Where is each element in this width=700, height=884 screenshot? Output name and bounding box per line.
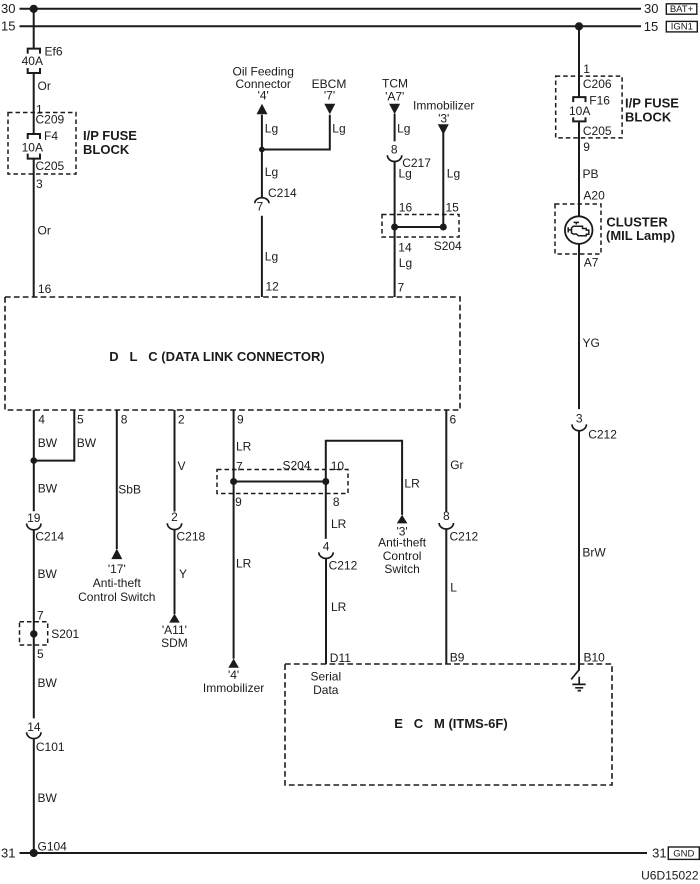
- svg-text:Y: Y: [179, 567, 187, 581]
- svg-text:9: 9: [237, 412, 244, 426]
- splice S204 (lower) internal wire: [234, 481, 326, 483]
- wire: DLC pin 9 to S204 pin 7 (LR): [233, 410, 235, 482]
- bus 30 (BAT+): [20, 8, 642, 10]
- svg-text:Anti-theft: Anti-theft: [93, 576, 142, 590]
- svg-text:14: 14: [27, 720, 41, 734]
- svg-text:2: 2: [178, 412, 185, 426]
- svg-text:16: 16: [38, 282, 52, 296]
- I/P fuse block (right) dashed box: [556, 76, 622, 138]
- svg-text:2: 2: [171, 510, 178, 524]
- node: S204 pin7 dot: [230, 478, 237, 485]
- svg-text:BW: BW: [38, 676, 58, 690]
- svg-text:Or: Or: [38, 79, 51, 93]
- wire: C214 to DLC pin 12 (Lg): [261, 216, 263, 297]
- svg-text:16: 16: [399, 201, 413, 215]
- connector C214 pin 19 (cup symbol): [27, 524, 41, 530]
- svg-text:'A11': 'A11': [162, 623, 187, 637]
- svg-text:LR: LR: [404, 477, 420, 491]
- arrow from Immobilizer '3': [438, 124, 449, 135]
- svg-text:V: V: [178, 459, 186, 473]
- svg-text:Lg: Lg: [265, 122, 278, 136]
- svg-text:8: 8: [391, 143, 398, 157]
- svg-text:9: 9: [583, 140, 590, 154]
- svg-text:6: 6: [450, 412, 457, 426]
- svg-text:C205: C205: [583, 124, 612, 138]
- node: junction bus30 / left column: [30, 5, 38, 13]
- svg-text:'4': '4': [228, 668, 239, 682]
- svg-text:(MIL Lamp): (MIL Lamp): [606, 228, 675, 243]
- svg-text:7: 7: [236, 459, 243, 473]
- svg-text:10: 10: [331, 459, 345, 473]
- svg-text:C101: C101: [36, 740, 65, 754]
- svg-text:LR: LR: [236, 557, 252, 571]
- svg-text:BW: BW: [38, 436, 58, 450]
- wire: DLC pin 5 down and across (BW): [34, 410, 75, 461]
- svg-text:B9: B9: [450, 651, 465, 665]
- svg-text:5: 5: [77, 412, 84, 426]
- connector C214 pin 7 (cap symbol): [255, 198, 269, 204]
- svg-text:L: L: [450, 581, 457, 595]
- svg-text:Ef6: Ef6: [45, 45, 63, 59]
- svg-text:BW: BW: [38, 791, 58, 805]
- svg-text:'4': '4': [258, 88, 269, 102]
- svg-text:30: 30: [644, 1, 658, 16]
- svg-text:S204: S204: [434, 239, 462, 253]
- wire: Oil Feeding Connector branch (Lg): [261, 115, 263, 198]
- svg-text:Lg: Lg: [397, 122, 410, 136]
- svg-text:G104: G104: [38, 840, 68, 854]
- GND tag box: [668, 847, 699, 859]
- wire: fuse F16 to CLUSTER A20 (PB): [578, 121, 580, 216]
- svg-text:BW: BW: [77, 436, 97, 450]
- bus 15 (IGN1): [20, 25, 642, 27]
- svg-text:F4: F4: [44, 129, 58, 143]
- connector C212 pin 8 (cup symbol): [439, 523, 453, 529]
- svg-text:B10: B10: [584, 651, 606, 665]
- svg-text:IGN1: IGN1: [671, 22, 693, 33]
- svg-text:19: 19: [27, 511, 41, 525]
- arrow to '4' Immobilizer: [228, 659, 239, 668]
- wire: C214 to C101 through S201 (BW): [33, 530, 35, 719]
- svg-text:S201: S201: [51, 627, 79, 641]
- svg-text:15: 15: [1, 18, 15, 33]
- svg-text:7: 7: [257, 200, 264, 214]
- wire: DLC pin 6 down (Gr): [445, 410, 447, 512]
- wire: S204 pin 14 to DLC pin 7 (Lg): [394, 227, 396, 297]
- svg-text:C212: C212: [588, 428, 617, 442]
- IGN1 tag box: [666, 21, 697, 32]
- svg-text:9: 9: [235, 495, 242, 509]
- svg-text:31: 31: [1, 845, 15, 860]
- svg-text:7: 7: [37, 608, 44, 622]
- svg-text:14: 14: [398, 241, 412, 255]
- BAT+ tag box: [666, 4, 697, 14]
- wire: S204 pin 8 down (LR): [325, 482, 327, 539]
- wire: C101 to G104 bus 31 (BW): [33, 739, 35, 854]
- svg-text:15: 15: [446, 201, 460, 215]
- wire: DLC pin 2 down (V): [174, 410, 176, 512]
- svg-text:SbB: SbB: [118, 482, 141, 496]
- svg-text:31: 31: [652, 845, 666, 860]
- wire: C218 to SDM (Y): [174, 530, 176, 615]
- svg-text:7: 7: [398, 281, 405, 295]
- wire: fuse Ef6 to fuse F4 (Or): [33, 73, 35, 134]
- svg-text:8: 8: [121, 412, 128, 426]
- svg-text:BW: BW: [38, 482, 58, 496]
- svg-text:'7': '7': [324, 88, 335, 102]
- arrow to Oil Feeding Connector '4': [257, 104, 268, 115]
- node: junction BW wires: [31, 457, 38, 464]
- svg-text:D L C (DATA LINK CONNECTOR: D L C (DATA LINK CONNECTOR): [109, 349, 324, 364]
- arrow to 'A11' SDM: [169, 614, 180, 623]
- connector C218 pin 2 (cup symbol): [167, 523, 181, 529]
- splice S201 dashed box: [20, 622, 48, 645]
- wire: S204 pin 9 to Immobilizer '4' (LR): [233, 482, 235, 659]
- svg-text:'17': '17': [108, 562, 126, 576]
- svg-text:BW: BW: [38, 567, 58, 581]
- svg-text:Immobilizer: Immobilizer: [203, 681, 264, 695]
- ECM dashed box: [285, 664, 612, 785]
- svg-text:SDM: SDM: [161, 636, 188, 650]
- svg-text:Lg: Lg: [399, 256, 412, 270]
- svg-text:Switch: Switch: [384, 562, 419, 576]
- wire: EBCM branch (Lg): [262, 115, 330, 150]
- svg-text:LR: LR: [331, 600, 347, 614]
- svg-text:Gr: Gr: [450, 458, 463, 472]
- node: S201 splice dot: [30, 630, 37, 637]
- svg-text:4: 4: [323, 540, 330, 554]
- svg-text:5: 5: [37, 647, 44, 661]
- svg-text:Control Switch: Control Switch: [78, 590, 155, 604]
- svg-text:LR: LR: [236, 440, 252, 454]
- wire: bus15 to fuse F16: [578, 26, 580, 97]
- splice S204 (upper) internal wire: [395, 226, 444, 228]
- MIL engine icon: [574, 222, 579, 224]
- arrow to '3' Anti-theft Control Switch: [397, 515, 408, 524]
- wire: fuse F4 to DLC pin 16 (Or): [33, 159, 35, 297]
- splice S204 (upper) dashed box: [382, 215, 459, 238]
- node: S204 pin16 dot: [391, 224, 398, 231]
- svg-text:I/P FUSE: I/P FUSE: [83, 128, 137, 143]
- svg-text:BLOCK: BLOCK: [83, 142, 130, 157]
- svg-text:Serial: Serial: [310, 670, 341, 684]
- arrow from EBCM '7': [324, 104, 335, 115]
- wire: DLC pin 4 down (BW): [33, 410, 35, 511]
- wire: TCM branch (Lg): [394, 114, 396, 142]
- svg-text:3: 3: [576, 412, 583, 426]
- wire: C217 to splice S204 pin 16 (Lg): [394, 162, 396, 228]
- svg-text:PB: PB: [583, 167, 599, 181]
- svg-text:Lg: Lg: [332, 122, 345, 136]
- svg-text:10A: 10A: [569, 104, 590, 118]
- svg-text:BAT+: BAT+: [670, 4, 694, 15]
- node: junction Lg wires: [259, 147, 265, 153]
- CLUSTER dashed box: [555, 204, 601, 254]
- svg-text:LR: LR: [331, 517, 347, 531]
- svg-text:Oil Feeding: Oil Feeding: [233, 64, 294, 78]
- svg-text:E C M (ITMS-6F): E C M (ITMS-6F): [394, 716, 507, 731]
- MIL lamp circle: [565, 216, 593, 244]
- bus 31 (GND): [20, 852, 648, 854]
- svg-text:'A7': 'A7': [385, 89, 404, 103]
- wire: DLC pin 8 to anti-theft '17' (SbB): [116, 410, 118, 549]
- svg-text:Data: Data: [313, 683, 339, 697]
- svg-text:1: 1: [583, 62, 590, 76]
- node: S204 pin10 dot: [322, 478, 329, 485]
- svg-text:Anti-theft: Anti-theft: [378, 536, 427, 550]
- wire: C212 to ECM D11 Serial Data (LR): [325, 558, 327, 664]
- svg-text:Lg: Lg: [265, 165, 278, 179]
- svg-text:I/P FUSE: I/P FUSE: [625, 95, 679, 110]
- wire: S204 pin 10 up and to anti-theft '3' (LR): [326, 441, 402, 515]
- wire: bus30 to fuse Ef6: [33, 9, 35, 49]
- svg-text:Or: Or: [38, 224, 51, 238]
- svg-text:'3': '3': [438, 112, 449, 126]
- wire: Immobilizer branch to S204 pin 15 (Lg): [442, 133, 444, 228]
- svg-text:A7: A7: [584, 255, 599, 269]
- svg-text:3: 3: [36, 177, 43, 191]
- svg-text:GND: GND: [673, 848, 694, 859]
- svg-text:F16: F16: [589, 93, 610, 107]
- arrow to '17' Anti-theft Control Switch: [111, 549, 122, 560]
- svg-text:Immobilizer: Immobilizer: [413, 99, 474, 113]
- node: junction bus15 / right column: [575, 22, 583, 30]
- DLC (Data Link Connector) dashed box: [5, 297, 460, 410]
- ground symbol inside ECM at B10: [571, 670, 579, 680]
- wire: C212 to ECM B9 (L): [445, 529, 447, 664]
- svg-text:30: 30: [1, 1, 15, 16]
- svg-text:8: 8: [333, 495, 340, 509]
- svg-text:BrW: BrW: [582, 546, 606, 560]
- svg-text:C212: C212: [450, 530, 479, 544]
- fuse Ef6 40A: [28, 49, 40, 73]
- svg-text:Lg: Lg: [265, 250, 278, 264]
- fuse F16 10A: [573, 97, 585, 121]
- svg-text:C206: C206: [583, 77, 612, 91]
- svg-text:U6D15022: U6D15022: [641, 868, 699, 882]
- connector C212 pin 4 (cup symbol): [319, 552, 333, 558]
- svg-text:A20: A20: [583, 188, 605, 202]
- svg-text:BLOCK: BLOCK: [625, 110, 672, 125]
- connector C217 pin 8 (cup symbol): [387, 155, 401, 161]
- wire: CLUSTER A7 down (YG): [578, 244, 580, 409]
- svg-text:D11: D11: [330, 651, 351, 665]
- svg-text:40A: 40A: [22, 54, 43, 68]
- svg-text:C214: C214: [35, 529, 64, 543]
- I/P fuse block (left) dashed box: [8, 113, 76, 175]
- svg-text:12: 12: [266, 280, 280, 294]
- svg-text:C209: C209: [36, 113, 65, 127]
- connector C212 pin 3 (cup symbol): [572, 424, 586, 430]
- node: junction bus31 / G104: [30, 849, 38, 857]
- svg-text:15: 15: [644, 19, 658, 34]
- arrow from TCM 'A7': [389, 104, 400, 115]
- svg-text:Lg: Lg: [447, 167, 460, 181]
- svg-text:C212: C212: [329, 558, 358, 572]
- svg-text:8: 8: [443, 509, 450, 523]
- svg-text:C218: C218: [177, 529, 206, 543]
- splice S204 (lower) dashed box: [217, 470, 348, 494]
- svg-text:C214: C214: [268, 186, 297, 200]
- svg-text:YG: YG: [583, 336, 600, 350]
- svg-text:C205: C205: [36, 159, 65, 173]
- svg-text:Lg: Lg: [399, 167, 412, 181]
- wire: C212 to ECM B10 (BrW): [578, 431, 580, 671]
- svg-text:10A: 10A: [22, 141, 43, 155]
- node: S204 pin15 dot: [440, 224, 447, 231]
- svg-text:4: 4: [38, 412, 45, 426]
- connector C101 pin 14 (cup symbol): [27, 732, 41, 738]
- svg-text:S204: S204: [283, 459, 311, 473]
- fuse F4 10A: [28, 134, 40, 159]
